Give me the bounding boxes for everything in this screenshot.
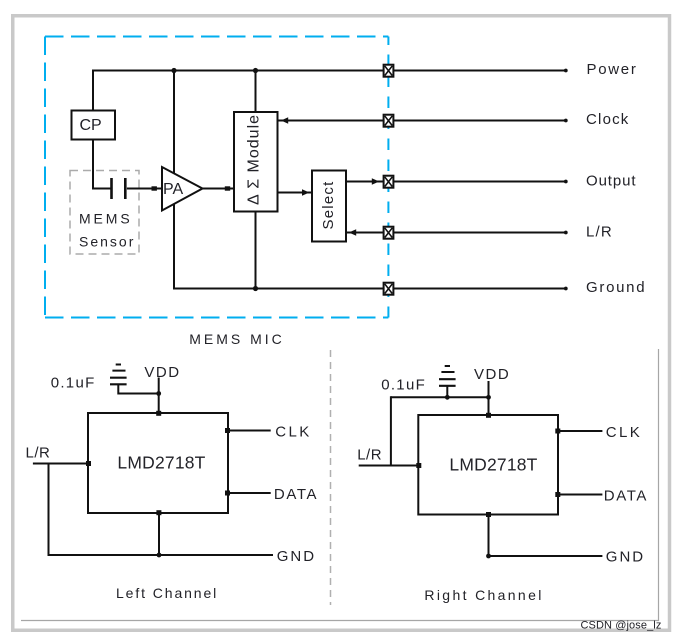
pad P2 Clock: [384, 115, 394, 127]
node dot L/R end: [564, 231, 568, 235]
IC U5 LMD2718T left: [88, 413, 228, 513]
op-amp PA: [162, 167, 203, 211]
MEMS sensor dashed box: [70, 171, 139, 255]
wire chip bottom pin left: [158, 513, 160, 555]
MEMS MIC package dashed outline: [45, 37, 388, 318]
svg-text:Δ Σ Module: Δ Σ Module: [246, 114, 263, 205]
wire top rail (Power): [93, 70, 383, 72]
capacitor C1 mems sensor: [112, 178, 126, 199]
wire module to select: [278, 192, 313, 194]
junction dot GND right: [486, 554, 491, 559]
junction dot top rail x255.5: [253, 68, 258, 73]
svg-text:L/R: L/R: [357, 447, 382, 464]
svg-text:PA: PA: [163, 181, 183, 198]
svg-text:Clock: Clock: [586, 111, 630, 128]
wire CLK left: [228, 430, 271, 432]
wire capacitor to PA input: [127, 188, 161, 190]
svg-text:LMD2718T: LMD2718T: [117, 453, 205, 473]
capacitor C3 0.1uF: [439, 379, 456, 386]
svg-text:VDD: VDD: [474, 366, 510, 383]
pin dot VDD left chip: [156, 411, 161, 416]
svg-text:LMD2718T: LMD2718T: [449, 455, 537, 475]
svg-text:Sensor: Sensor: [79, 234, 135, 250]
node dot Ground end: [564, 287, 568, 291]
junction dot bottom rail x255.5: [253, 286, 258, 291]
wire CLK right: [558, 430, 602, 432]
pad P1 Power: [384, 65, 394, 77]
svg-text:L/R: L/R: [26, 445, 51, 462]
svg-text:MEMS MIC: MEMS MIC: [189, 331, 285, 347]
svg-text:0.1uF: 0.1uF: [51, 375, 96, 392]
pad P5 Ground: [384, 283, 394, 295]
junction dot C3 lead: [445, 395, 450, 400]
pin dot CLK right chip: [555, 429, 560, 434]
svg-text:CLK: CLK: [606, 424, 642, 441]
ground symbol above C3: [441, 366, 454, 372]
wire Power pad to dot: [393, 70, 566, 72]
svg-text:0.1uF: 0.1uF: [381, 377, 426, 394]
pin dot VDD right chip: [486, 413, 491, 418]
wire DATA left: [228, 492, 271, 494]
wire VDD rail left: [158, 378, 160, 414]
wire PA output to module: [202, 188, 234, 190]
pin dot CLK left chip: [225, 428, 230, 433]
svg-text:DATA: DATA: [604, 487, 648, 504]
junction dot top rail x174: [171, 68, 176, 73]
wire Output pad to dot: [393, 181, 566, 183]
wire DATA right: [558, 494, 602, 496]
wire Ground pad to dot: [393, 288, 566, 290]
junction dot VDD/cap left: [156, 391, 161, 396]
wire L/R left: [33, 463, 88, 465]
wire Output row select to pad: [346, 181, 383, 183]
ground symbol above C2: [112, 365, 125, 371]
svg-text:CP: CP: [80, 117, 102, 134]
svg-text:CLK: CLK: [275, 423, 311, 440]
pin dot GND left chip: [156, 510, 161, 515]
wire C2 lead: [117, 384, 119, 392]
wire Clock pad to dot: [393, 120, 566, 122]
node dot Clock end: [564, 119, 568, 123]
channel separator dashed: [330, 350, 332, 605]
wire chip bottom pin right: [488, 515, 490, 557]
pin dot L/R right chip: [416, 463, 421, 468]
node dot Output end: [564, 180, 568, 184]
svg-text:Output: Output: [586, 172, 636, 189]
CP box U2: [72, 111, 116, 140]
wire VDD rail right: [488, 381, 490, 415]
svg-text:VDD: VDD: [144, 364, 180, 381]
junction dot VDD/cap right: [486, 395, 491, 400]
svg-text:L/R: L/R: [586, 223, 613, 240]
wire L/R pad to dot: [393, 232, 566, 234]
wire CP bottom to capacitor: [92, 140, 111, 189]
IC U6 LMD2718T right: [418, 415, 558, 515]
pin dot DATA left chip: [225, 491, 230, 496]
svg-text:Left Channel: Left Channel: [116, 585, 218, 601]
wire C3 lead: [446, 386, 448, 397]
wire C3 row to VDD rail right: [391, 396, 489, 398]
connection dot PA output: [225, 186, 230, 190]
wire L/R right: [359, 465, 419, 467]
delta-sigma module U3: [234, 112, 278, 212]
wire Clock row module to pad: [278, 120, 383, 122]
arrow output to pad: [372, 178, 379, 184]
svg-text:CSDN @jose_lz: CSDN @jose_lz: [581, 620, 662, 632]
svg-text:GND: GND: [277, 548, 316, 565]
wire L/R to GND vertical left: [48, 464, 50, 556]
arrow L/R into select: [349, 229, 356, 235]
svg-text:GND: GND: [606, 549, 645, 566]
pin dot L/R left chip: [86, 461, 91, 466]
pin dot GND right chip: [486, 512, 491, 517]
arrow into select input: [302, 189, 309, 195]
wire C2 to VDD rail: [117, 393, 158, 395]
wire module top rail: [255, 70, 257, 113]
svg-text:Select: Select: [320, 181, 337, 230]
capacitor C2 0.1uF: [110, 378, 127, 385]
svg-text:Right Channel: Right Channel: [424, 587, 543, 603]
wire GND row left: [48, 554, 274, 556]
pad P4 L/R: [384, 227, 394, 239]
wire cap row to L/R vertical right: [390, 396, 392, 465]
pad P3 Output: [384, 176, 394, 188]
node dot Power end: [564, 69, 568, 73]
wire GND row right: [489, 555, 603, 557]
svg-text:Power: Power: [587, 61, 638, 78]
junction dot GND row left: [157, 553, 162, 558]
connection dot PA input: [152, 186, 157, 190]
wire CP drop from top rail: [92, 70, 94, 111]
svg-text:Ground: Ground: [586, 279, 646, 296]
svg-text:MEMS: MEMS: [79, 211, 133, 227]
arrow clock into module: [281, 117, 288, 123]
select box U4: [312, 171, 346, 242]
pin dot DATA right chip: [555, 492, 560, 497]
wire module bottom rail: [255, 212, 257, 289]
wire ground row inside mic: [173, 288, 383, 290]
inner image border thin line: [21, 349, 659, 621]
wire L/R row pad to select: [346, 232, 383, 234]
svg-text:DATA: DATA: [274, 486, 318, 503]
wire bias rail x174: [173, 70, 175, 289]
